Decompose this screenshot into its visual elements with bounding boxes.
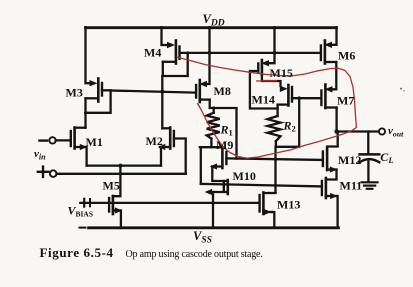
wire VDD drop to M3	[86, 27, 94, 83]
terminal minus input	[40, 139, 48, 141]
wire M4 drain down to M2	[161, 76, 163, 128]
transistor M15	[258, 60, 269, 75]
wire R2 node down to M13 drain	[274, 147, 276, 193]
wire M8 drain to R1 and M9 gate line	[210, 100, 237, 159]
wire M11 source to VSS	[336, 196, 338, 228]
transistor M6	[321, 41, 336, 64]
resistor R1	[207, 113, 220, 139]
svg-text:R1: R1	[220, 123, 233, 138]
wire VDD drop to M6	[330, 27, 337, 45]
svg-text:M2: M2	[146, 134, 163, 148]
wire M2 source down	[160, 147, 162, 166]
svg-text:vin: vin	[34, 148, 46, 161]
wire plus input line	[57, 173, 186, 175]
wire gate line M4 to M6	[180, 52, 321, 54]
svg-text:M10: M10	[233, 169, 256, 183]
svg-text:M9: M9	[216, 138, 233, 152]
node junction M3 loop	[84, 111, 87, 114]
wire M1 source down	[85, 147, 87, 166]
wire VDD drop to M15	[268, 27, 275, 63]
transistor M7	[321, 85, 336, 109]
ground	[362, 182, 378, 189]
scan speck	[400, 88, 402, 90]
transistor M4	[163, 41, 180, 64]
red annotation curve	[177, 57, 357, 158]
wire R1 bottom to M9 drain	[210, 139, 212, 148]
node junction M8 wire crossing	[208, 51, 212, 55]
wire output to vout terminal	[337, 130, 379, 132]
transistor M13	[260, 193, 276, 216]
wire M10 source to VSS	[212, 192, 214, 228]
capacitor CL	[360, 153, 380, 156]
svg-text:M7: M7	[337, 94, 354, 108]
svg-text:M1: M1	[86, 135, 103, 149]
wire VBIAS gate line	[80, 202, 258, 204]
wire M12 source to M11 drain	[326, 170, 337, 180]
svg-text:VSS: VSS	[193, 229, 212, 246]
wire M6 drain to M7 source	[330, 62, 336, 89]
svg-text:M3: M3	[66, 86, 83, 100]
wire CL branch	[367, 132, 369, 154]
VDD rail	[86, 26, 337, 29]
node junction M5 drain	[118, 164, 122, 168]
transistor M5	[109, 196, 122, 214]
wire VDD drop to M8	[205, 27, 210, 84]
transistor M2	[158, 128, 174, 151]
VSS rail	[89, 226, 339, 229]
wire output down to M12 drain	[327, 132, 338, 147]
wire M5 drain	[113, 166, 121, 197]
wire M1 drain stub	[75, 127, 86, 129]
svg-text:vout: vout	[388, 125, 404, 138]
wire M14 drain to R2 top	[276, 105, 278, 116]
node junction M15 wire crossing	[273, 51, 277, 55]
scan speck	[403, 90, 405, 92]
transistor M12	[323, 148, 337, 173]
wire gate line M10 to M11	[201, 184, 322, 187]
wire VDD drop to M4	[162, 27, 172, 45]
transistor M11	[322, 178, 338, 199]
svg-text:Figure 6.5-4: Figure 6.5-4	[40, 245, 114, 260]
node junction M4 loop gate line	[186, 51, 189, 54]
node junction M4 drain crossing	[160, 90, 164, 94]
svg-text:Op amp using cascode output st: Op amp using cascode output stage.	[126, 249, 263, 260]
wire gate line M3 to M8	[111, 91, 195, 93]
svg-text:M5: M5	[103, 179, 120, 193]
wire M15 gate to R2 node	[250, 71, 278, 109]
terminal VBIAS tick	[89, 199, 91, 206]
svg-text:M11: M11	[340, 179, 363, 193]
transistor M9	[210, 148, 227, 170]
wire common source	[87, 164, 161, 166]
node junction R1 top	[212, 106, 215, 109]
wire M3 drain down to M1	[84, 98, 86, 127]
transistor M3	[86, 79, 103, 102]
wire gate line M9 to M12	[226, 158, 321, 160]
svg-text:CL: CL	[380, 150, 393, 165]
wire M14 gate line to M7	[292, 97, 320, 99]
transistor M8	[196, 80, 210, 102]
node output junction	[334, 129, 339, 134]
wire M3 gate loop	[86, 90, 111, 113]
svg-text:M8: M8	[214, 84, 231, 98]
resistor R2	[268, 116, 281, 141]
wire M9 drain down to M10 gate line	[200, 147, 202, 184]
terminal VSS minus dash	[80, 227, 86, 229]
svg-text:M4: M4	[144, 46, 161, 60]
svg-text:M6: M6	[338, 49, 355, 63]
svg-text:M12: M12	[338, 153, 361, 167]
svg-text:M15: M15	[270, 66, 293, 80]
svg-text:R2: R2	[283, 119, 296, 134]
node junction gate line crossing	[274, 157, 278, 161]
wire M2 drain stub	[162, 127, 170, 129]
wire M9 source loop to M10 drain	[212, 167, 228, 182]
wire R2 bottom loop	[276, 98, 299, 147]
svg-text:M14: M14	[252, 93, 275, 107]
wire M15 drain to M14 source	[262, 75, 281, 86]
wire M5 source to VSS	[120, 211, 122, 229]
terminal plus input	[38, 171, 49, 173]
wire R1 top stub	[213, 108, 215, 113]
transistor M14	[278, 85, 292, 106]
svg-text:VDD: VDD	[203, 12, 225, 29]
wire M2 gate from input	[174, 139, 186, 174]
node junction R2 gate line	[297, 96, 301, 100]
transistor M10	[205, 180, 228, 195]
terminal vout circle	[379, 128, 385, 134]
wire minus input to M1 gate	[56, 139, 71, 141]
svg-text:M13: M13	[277, 198, 300, 212]
wire M13 source to VSS	[272, 212, 274, 228]
wire M4 drain loop to gate	[163, 53, 188, 76]
transistor M1	[71, 128, 88, 151]
wire M7 drain to output node	[335, 108, 337, 132]
